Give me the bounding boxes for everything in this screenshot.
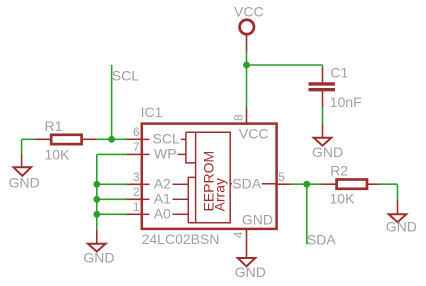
svg-text:SCL: SCL [153, 131, 180, 147]
ground symbol left [14, 155, 32, 176]
wire C1 bottom [322, 107, 324, 124]
inner connection dashes [143, 139, 277, 214]
svg-text:WP: WP [154, 146, 177, 162]
svg-text:4: 4 [232, 231, 246, 238]
svg-text:3: 3 [133, 170, 140, 184]
IC pin 1 A0 stub [127, 213, 142, 215]
junction SDA node [303, 181, 310, 188]
wire A0 [97, 213, 127, 215]
svg-text:6: 6 [133, 125, 140, 139]
svg-text:VCC: VCC [239, 126, 269, 142]
wire pin5 to junction [291, 183, 321, 185]
wire right of R2 [379, 183, 398, 185]
IC pin 6 SCL stub [127, 138, 142, 140]
wire A-line vertical [96, 154, 98, 229]
IC pin 7 WP stub [127, 153, 142, 155]
junction SCL node [108, 136, 115, 143]
svg-text:GND: GND [312, 144, 343, 160]
svg-text:SDA: SDA [232, 175, 261, 191]
svg-text:10K: 10K [330, 191, 356, 207]
wire WP to A-line [97, 153, 127, 155]
wire VCC vertical [246, 52, 248, 109]
svg-text:SDA: SDA [307, 232, 336, 248]
svg-text:8: 8 [232, 114, 246, 121]
resistor R2 [321, 180, 379, 189]
supply VCC pin stub [246, 35, 248, 53]
svg-text:5: 5 [278, 170, 285, 184]
svg-text:24LC02BSN: 24LC02BSN [142, 231, 220, 247]
svg-text:IC1: IC1 [141, 104, 163, 120]
svg-text:C1: C1 [330, 64, 348, 80]
ground symbol right [389, 199, 407, 222]
svg-text:A0: A0 [154, 206, 171, 222]
junction A0 node [93, 211, 100, 218]
wire left of R1 [22, 138, 36, 140]
wire VCC horizontal to C1 [247, 64, 323, 66]
svg-text:SCL: SCL [112, 68, 139, 84]
capacitor C1 [309, 68, 336, 108]
wire A1 [97, 198, 127, 200]
svg-text:7: 7 [133, 140, 140, 154]
ground symbol below IC pin 4 [238, 258, 256, 266]
IC pin 3 A2 stub [127, 183, 142, 185]
wire R2 drop [397, 184, 399, 199]
wire R1 to IC pin 6 [97, 138, 127, 140]
IC pin 5 SDA stub [277, 183, 292, 185]
svg-text:Array: Array [212, 178, 228, 211]
IC pin 8 VCC stub [246, 109, 248, 124]
ground symbol below A-line [88, 230, 106, 252]
inner EEPROM array box [186, 132, 230, 223]
svg-text:GND: GND [9, 175, 40, 191]
wire drop to left GND [21, 139, 23, 154]
svg-text:VCC: VCC [234, 3, 264, 19]
svg-text:A2: A2 [154, 176, 171, 192]
svg-text:GND: GND [386, 219, 417, 235]
supply symbol VCC [240, 20, 254, 34]
svg-text:GND: GND [242, 212, 273, 228]
svg-text:R1: R1 [45, 118, 63, 134]
svg-text:GND: GND [235, 264, 266, 280]
resistor R1 [36, 135, 97, 144]
svg-text:2: 2 [133, 185, 140, 199]
junction A1 node [93, 196, 100, 203]
wire SCL vertical [111, 65, 113, 139]
svg-text:R2: R2 [330, 162, 348, 178]
svg-text:10nF: 10nF [330, 94, 362, 110]
IC pin 4 GND stub [246, 229, 248, 258]
junction A2 node [93, 181, 100, 188]
ground symbol below C1 [314, 124, 332, 146]
wire C1 top drop [322, 65, 324, 68]
IC IC1 24LC02BSN body [142, 124, 277, 229]
svg-text:A1: A1 [154, 191, 171, 207]
wire SDA vertical [306, 184, 308, 244]
svg-text:1: 1 [133, 200, 140, 214]
IC pin 2 A1 stub [127, 198, 142, 200]
junction VCC node [243, 62, 250, 69]
wire A2 [97, 183, 127, 185]
svg-text:GND: GND [83, 249, 114, 265]
svg-text:10K: 10K [45, 147, 71, 163]
